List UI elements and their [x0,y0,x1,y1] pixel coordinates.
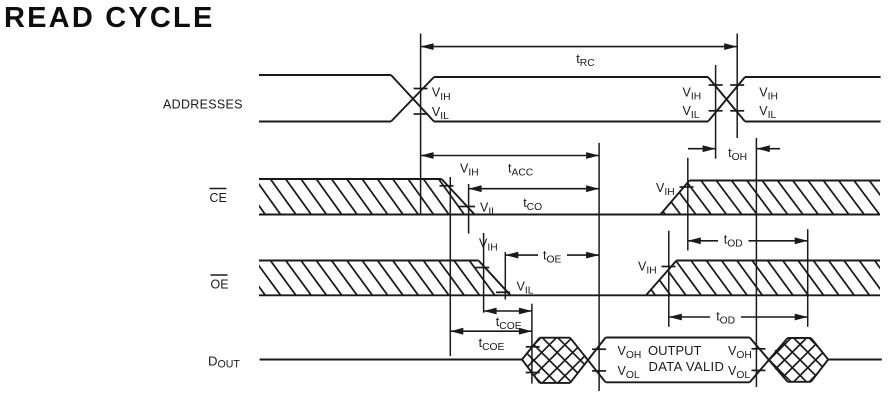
svg-text:OE: OE [211,278,229,292]
OE falling edge slope [479,261,511,296]
tOD upper dimension arrow (label interrupts line) [688,240,718,242]
addresses waveform: left stable segment [259,74,391,76]
tACC dimension arrow [421,155,599,157]
DOUT crossover into valid data [570,338,606,383]
CE rising edge slope [660,181,689,215]
OE VIH tick on rising edge [662,266,676,268]
reference line OE fall VIL (x=505.3) [504,252,506,300]
reference line address hold start (x=715.6) [715,65,717,159]
CE right hatched band [625,181,893,215]
VOH/VOL ticks at access reference [592,348,606,350]
svg-text:READ CYCLE: READ CYCLE [4,2,215,34]
CE low line [259,214,660,216]
OE rising edge slope [646,261,677,296]
tOE dimension arrow (label interrupts line) [505,254,538,256]
DOUT turn-off bowtie (crosshatch) [716,338,893,382]
reference line access complete (x=599.1) [598,143,600,391]
DOUT crossover out of valid data [750,338,788,382]
tCO dimension arrow [469,188,599,190]
CE VIH tick on falling edge [440,185,454,187]
DOUT valid-data hexagon top/bottom edges [606,337,750,339]
reference line CE fall VIH (x=450.3) [449,177,451,356]
tCOE lower dimension arrow [450,330,532,332]
addresses waveform: first crossover X [391,75,434,122]
VIH/VIL ticks at second address crossover (right line) [730,84,744,86]
CE left hatched band (dont-care high) [225,179,511,215]
OE left hatched band (dont-care high) [225,261,541,296]
reference line OE rise VIH (x=668.8) [668,231,670,327]
tRC dimension arrow [421,46,738,48]
CE VIH tick on rising edge [680,186,694,188]
reference line end of read cycle (x=737.2) [736,34,738,139]
addresses waveform: middle stable segment [434,76,708,78]
svg-text:ADDRESSES: ADDRESSES [163,98,243,112]
reference line at address change (x=420.6) [420,34,422,215]
reference line output hold end (x=756.4) [755,138,757,387]
reference line data valid start (x=531.9) [531,304,533,384]
DOUT line after turn-off [828,359,882,361]
OE right hatched band [615,261,893,296]
VIH/VIL ticks at second address crossover (left line) [709,84,723,86]
DOUT line before turn-on [260,359,522,361]
addresses waveform: right stable segment [745,76,881,78]
OE low line [259,294,646,296]
svg-text:DATA VALID: DATA VALID [649,359,725,374]
VOH/VOL ticks at output hold reference [752,348,766,350]
tOD lower dimension arrow (label interrupts line) [669,316,710,318]
tCOE upper dimension arrow [484,310,532,312]
OE VIH tick on falling edge [475,267,489,269]
DOUT turn-on bowtie (invalid data crosshatch) [465,338,681,383]
reference line CE fall VIL (x=468.6) [468,184,470,234]
OE VIL tick on falling edge [496,291,510,293]
reference line CE rise VIH (x=687.8) [687,158,689,251]
VIH/VIL ticks at first address crossover [414,88,428,90]
CE VIL tick on falling edge [459,206,475,208]
svg-text:CE: CE [210,191,227,205]
VOH/VOL ticks at data-valid start reference [526,346,540,348]
CE falling edge slope [442,179,475,215]
reference line OE fall VIH (x=483.6) [483,233,485,313]
tOH outside dimension arrows [688,148,716,150]
addresses waveform: second crossover X [708,77,745,122]
reference line output disable end (x=807.7) [807,229,809,327]
svg-text:OUTPUT: OUTPUT [648,343,702,358]
